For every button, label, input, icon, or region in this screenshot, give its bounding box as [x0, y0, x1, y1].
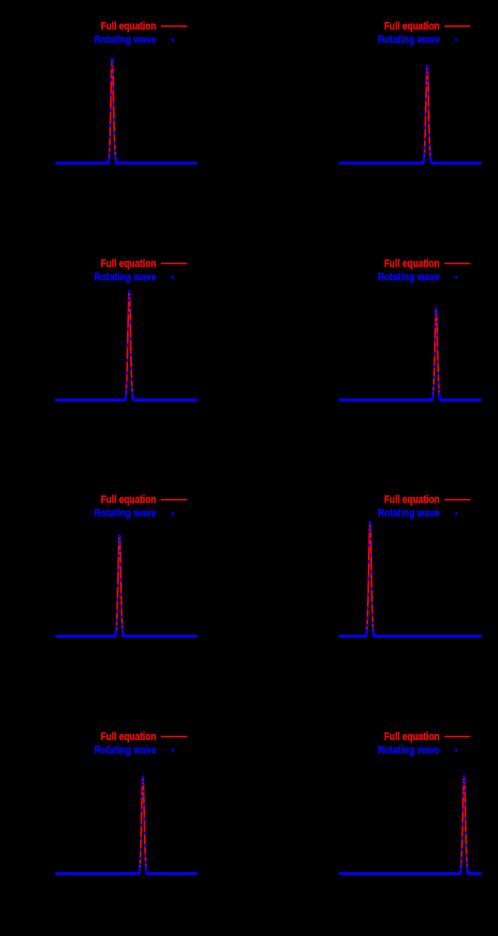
svg-text:Rotating wave: Rotating wave [378, 271, 440, 283]
svg-text:Rotating wave: Rotating wave [94, 271, 156, 283]
svg-text:Rotating wave: Rotating wave [94, 744, 156, 756]
svg-text:Full equation: Full equation [101, 494, 157, 506]
svg-text:Rotating wave: Rotating wave [378, 508, 440, 520]
svg-text:Rotating wave: Rotating wave [378, 34, 440, 46]
svg-text:Rotating wave: Rotating wave [94, 34, 156, 46]
svg-text:Full equation: Full equation [384, 21, 440, 33]
svg-text:Full equation: Full equation [384, 494, 440, 506]
svg-text:Full equation: Full equation [384, 258, 440, 270]
svg-text:Full equation: Full equation [101, 731, 157, 743]
svg-text:Full equation: Full equation [101, 258, 157, 270]
svg-text:Rotating wave: Rotating wave [378, 744, 440, 756]
svg-text:Full equation: Full equation [384, 731, 440, 743]
svg-text:Full equation: Full equation [101, 21, 157, 33]
svg-text:Rotating wave: Rotating wave [94, 508, 156, 520]
